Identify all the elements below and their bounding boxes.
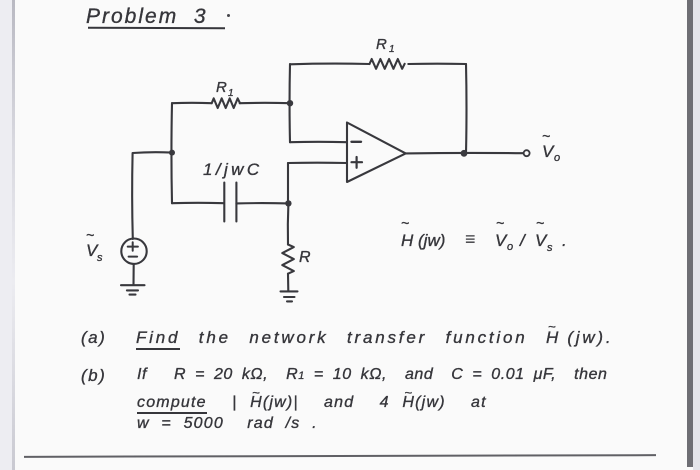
svg-text:~: ~ (536, 215, 544, 231)
wire: node down to resistor R (287, 203, 290, 244)
problem text (b) line 3 (137, 415, 318, 433)
svg-text:s: s (97, 252, 103, 264)
svg-text:H (jw): H (jw) (401, 231, 445, 250)
output terminal Vo (open circle) (524, 150, 530, 156)
label R1 (feedback resistor) (376, 36, 395, 55)
label 1/jwC (203, 160, 263, 179)
wire: op-amp output (406, 152, 524, 155)
svg-text:/: / (519, 231, 527, 250)
problem text (a) (81, 328, 106, 348)
junction: output node (461, 150, 468, 157)
label Vo (542, 128, 560, 164)
source Vs (circle) (121, 239, 146, 264)
wire: feedback right vertical to output (465, 64, 468, 153)
ground (below R) (281, 291, 298, 301)
wire: capacitor to plus node (236, 202, 288, 204)
svg-text:R: R (216, 79, 227, 96)
svg-text:~: ~ (401, 215, 409, 231)
wire: feedback top left segment (290, 63, 370, 66)
junction: capacitor / R node (285, 200, 291, 206)
wire: R1 (input) to inverting node (240, 102, 290, 104)
svg-text:1: 1 (228, 88, 234, 99)
svg-text:1: 1 (389, 44, 395, 55)
svg-text:.: . (562, 231, 567, 250)
svg-text:R: R (376, 36, 387, 53)
title: Problem 3 (86, 5, 208, 29)
source plus mark (128, 242, 138, 250)
op-amp U1 (347, 123, 406, 183)
problem text (b) line 1 (81, 366, 106, 386)
svg-text:o: o (554, 152, 560, 164)
svg-text:s: s (547, 242, 553, 254)
op-amp plus pin mark (352, 157, 363, 168)
svg-text:≡: ≡ (465, 229, 476, 249)
wire: source top to node A (132, 152, 172, 239)
equation H(jw) = Vo/Vs (401, 215, 567, 254)
resistor R1 (input) (212, 98, 240, 108)
capacitor C (1/jwC) (224, 183, 236, 222)
junction: inverting input node (287, 100, 293, 106)
svg-text:~: ~ (496, 215, 504, 231)
label Vs (86, 227, 103, 264)
wire: source bottom to ground (132, 264, 134, 285)
ground (below source) (121, 285, 145, 294)
wire: to op-amp inverting input (290, 141, 347, 143)
label R1 (input resistor) (216, 79, 234, 99)
svg-text:o: o (507, 241, 513, 253)
wire: into resistor R1 (input) (172, 102, 212, 104)
resistor R (to ground) (282, 245, 294, 274)
op-amp minus pin mark (352, 141, 362, 143)
wire: left vertical branch (node A up to R1, down to C) (170, 103, 173, 203)
wire: op-amp plus input (288, 162, 347, 164)
resistor R1 (feedback) (370, 59, 405, 69)
node A junction (Vs to R1/C branch) (169, 150, 175, 156)
wire: plus input vertical down to capacitor node (287, 163, 289, 203)
wire: node A to capacitor (172, 202, 224, 204)
problem text (b) line 2 (137, 394, 487, 412)
wire: feedback top right segment (408, 63, 466, 65)
svg-text:R: R (299, 249, 311, 266)
svg-text:1/jwC: 1/jwC (203, 160, 263, 179)
wire: inverting node vertical (feedback tap down to op-amp minus) (288, 64, 291, 142)
source minus mark (129, 256, 138, 258)
wire: resistor R to ground (287, 274, 289, 291)
label R (299, 249, 311, 266)
